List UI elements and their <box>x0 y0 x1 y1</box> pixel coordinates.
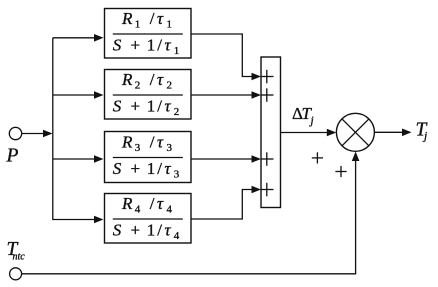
svg-text:R: R <box>121 70 133 89</box>
svg-text:S: S <box>113 159 122 178</box>
svg-text:2: 2 <box>174 106 180 118</box>
svg-text:τ: τ <box>165 96 172 115</box>
svg-text:R: R <box>121 132 133 151</box>
svg-text:1: 1 <box>147 159 156 178</box>
svg-text:τ: τ <box>157 132 164 151</box>
svg-text:1: 1 <box>147 35 156 54</box>
svg-text:τ: τ <box>165 159 172 178</box>
svg-text:τ: τ <box>165 35 172 54</box>
svg-text:R: R <box>121 9 133 28</box>
svg-text:+: + <box>131 35 141 54</box>
svg-text:R: R <box>121 194 133 213</box>
svg-text:τ: τ <box>157 70 164 89</box>
svg-text:τ: τ <box>157 194 164 213</box>
svg-text:1: 1 <box>147 220 156 239</box>
svg-text:/: / <box>150 194 155 213</box>
svg-text:/: / <box>157 220 162 239</box>
svg-text:3: 3 <box>135 142 141 154</box>
svg-text:/: / <box>157 159 162 178</box>
svg-text:1: 1 <box>167 18 173 30</box>
svg-text:S: S <box>113 35 122 54</box>
svg-text:P: P <box>6 146 19 167</box>
svg-text:+: + <box>131 159 141 178</box>
svg-text:4: 4 <box>174 230 180 242</box>
svg-text:ntc: ntc <box>13 252 26 263</box>
svg-text:/: / <box>157 35 162 54</box>
svg-text:2: 2 <box>135 79 141 91</box>
svg-text:τ: τ <box>165 220 172 239</box>
svg-text:S: S <box>113 220 122 239</box>
svg-text:3: 3 <box>167 142 173 154</box>
svg-text:1: 1 <box>147 96 156 115</box>
svg-text:/: / <box>157 96 162 115</box>
svg-text:τ: τ <box>157 9 164 28</box>
svg-text:+: + <box>131 96 141 115</box>
svg-text:/: / <box>150 70 155 89</box>
svg-text:+: + <box>131 220 141 239</box>
svg-text:1: 1 <box>174 45 180 57</box>
svg-text:2: 2 <box>167 79 173 91</box>
svg-text:3: 3 <box>174 169 180 181</box>
svg-text:4: 4 <box>167 203 173 215</box>
svg-text:S: S <box>113 96 122 115</box>
svg-text:/: / <box>150 9 155 28</box>
svg-text:1: 1 <box>135 18 141 30</box>
svg-text:4: 4 <box>135 203 141 215</box>
svg-text:/: / <box>150 132 155 151</box>
